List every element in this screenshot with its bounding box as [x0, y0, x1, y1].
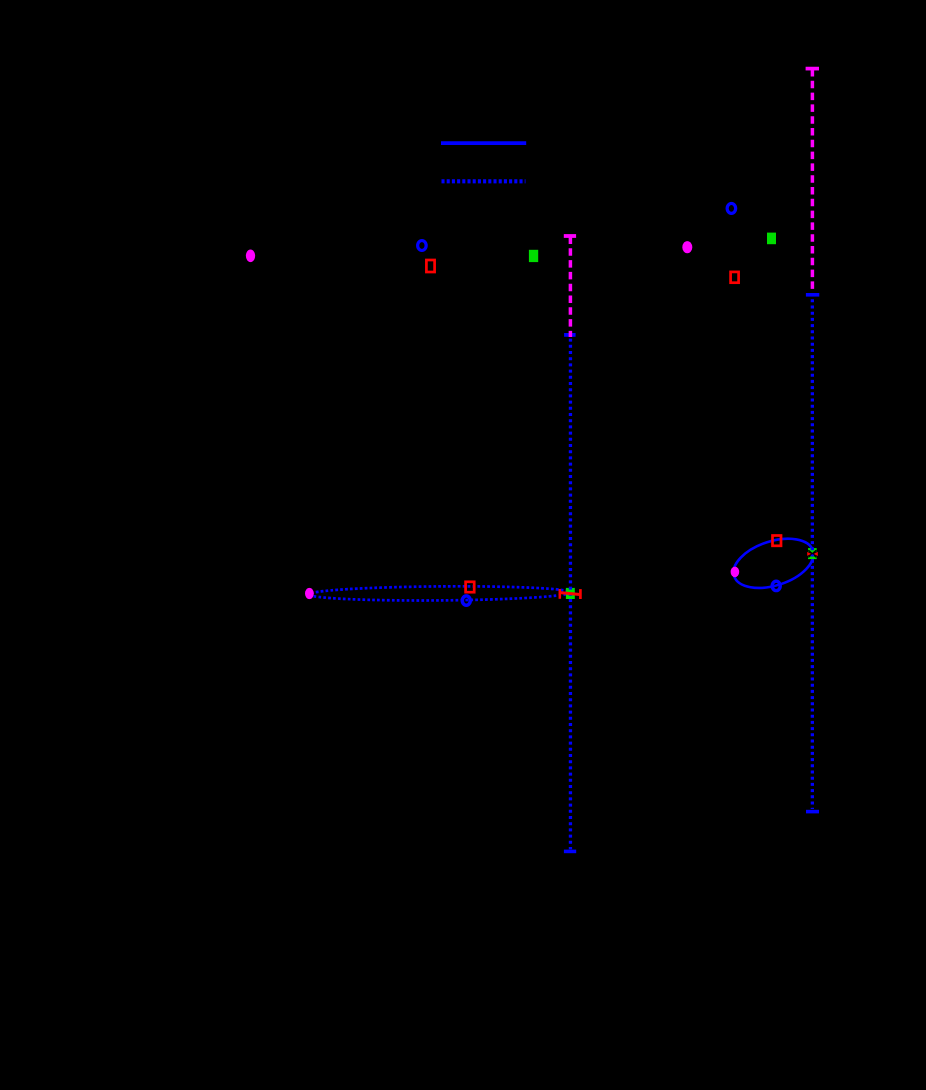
legend solid blue line — [441, 141, 526, 145]
left vertical: blue dotted segment — [569, 339, 572, 850]
marker: blue open circle (flat ellipse bottom) — [462, 596, 470, 605]
marker: magenta dot (flat ellipse left end) — [305, 588, 314, 599]
marker: blue open circle (right ellipse bottom) — [772, 581, 780, 590]
marker: blue open circle (top group 1) — [418, 241, 427, 251]
errorbar red horizontal line (flat ellipse right end) — [559, 593, 582, 595]
marker: green square (top group 2) — [767, 233, 776, 245]
left vertical: magenta top cap — [564, 234, 576, 238]
right vertical: blue mid cap — [806, 293, 819, 297]
marker: green square (right ellipse right node) — [808, 548, 817, 559]
solid blue orbit ellipse (right) — [727, 530, 819, 598]
right vertical: blue dotted segment — [811, 297, 814, 809]
marker: magenta dot (top group 2) — [682, 241, 692, 253]
marker: red open square (top group 2) — [731, 272, 739, 283]
left vertical: magenta dashed segment — [569, 237, 573, 338]
marker: red open square (right ellipse top) — [773, 536, 782, 546]
left vertical: blue mid cap — [564, 333, 576, 337]
right vertical: blue bottom cap — [806, 810, 819, 814]
marker: magenta dot (top-left) — [246, 250, 255, 263]
marker: blue open circle (top group 2) — [727, 203, 736, 213]
marker: green square (top group 1) — [529, 250, 538, 262]
right vertical: magenta dashed segment — [811, 69, 815, 292]
marker: magenta dot (right ellipse left) — [731, 567, 740, 578]
black X over green square (mid band) — [808, 550, 816, 557]
marker: red open square (top group 1) — [426, 260, 434, 272]
right vertical: magenta top cap — [806, 67, 819, 71]
marker: green square (flat ellipse right end) — [566, 588, 575, 599]
legend dotted blue line — [442, 179, 526, 183]
errorbar red left cap — [559, 589, 562, 599]
flat dotted blue orbit ellipse — [309, 585, 570, 601]
left vertical: blue bottom cap — [564, 850, 576, 854]
errorbar red right cap — [579, 589, 582, 599]
errorbar red wedge left (right ellipse node) — [807, 551, 812, 556]
marker: red open square (flat ellipse top) — [466, 582, 475, 592]
errorbar red wedge right (right ellipse node) — [813, 551, 818, 557]
